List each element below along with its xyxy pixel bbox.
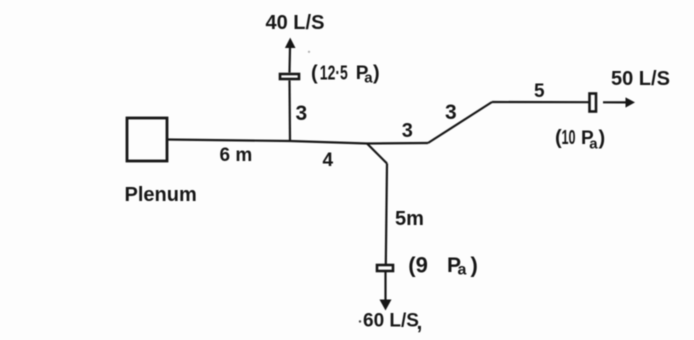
label (12.5 Pa) (311, 63, 380, 87)
wire top right horizontal run (492, 101, 589, 103)
svg-text:10: 10 (562, 127, 576, 149)
wire main duct from up-branch node to down-branch junction (290, 141, 367, 144)
wire main duct from junction to diagonal start (367, 142, 428, 145)
svg-text:a: a (458, 262, 467, 279)
wire arrow shaft 50 L/S outlet (603, 101, 626, 103)
damper up branch (orifice) (280, 74, 299, 79)
wire down branch diagonal stub (367, 144, 387, 164)
wire down branch below damper (384, 272, 386, 301)
svg-text:,: , (417, 311, 423, 334)
svg-text:(: ( (311, 63, 318, 85)
svg-text:Plenum: Plenum (125, 184, 197, 206)
svg-text:): ) (471, 252, 478, 277)
svg-text:3: 3 (296, 102, 308, 125)
damper right (orifice) (590, 94, 597, 112)
svg-text:50 L/S: 50 L/S (611, 68, 670, 90)
svg-text:60 L/S: 60 L/S (363, 311, 419, 332)
svg-text:4: 4 (323, 150, 334, 171)
plenum box (127, 118, 167, 161)
wire up branch above damper (288, 48, 291, 73)
damper down branch (orifice) (377, 265, 393, 271)
arrowhead right outlet (626, 97, 636, 107)
wire main duct from plenum to up-branch node (167, 140, 290, 142)
svg-text:3: 3 (402, 120, 413, 142)
label 60 L/S (359, 311, 423, 335)
svg-text:5m: 5m (395, 208, 424, 230)
wire diagonal riser to upper right (428, 102, 492, 143)
svg-text:): ) (373, 63, 380, 85)
svg-text:3: 3 (445, 101, 457, 124)
svg-text:a: a (589, 136, 598, 153)
arrowhead up outlet (285, 38, 296, 48)
scan speck (308, 51, 310, 53)
svg-text:a: a (364, 70, 373, 87)
svg-text:6 m: 6 m (220, 145, 253, 166)
arrowhead down outlet (380, 300, 392, 311)
wire up branch below damper (288, 81, 291, 142)
svg-text:5: 5 (534, 81, 545, 102)
label (9 Pa) (408, 252, 478, 278)
label (10 Pa) (555, 127, 605, 153)
svg-text:12·5: 12·5 (320, 63, 348, 85)
svg-text:40 L/S: 40 L/S (266, 12, 325, 34)
wire down branch vertical run 5m (386, 164, 387, 265)
svg-text:): ) (599, 128, 606, 150)
svg-text:(9: (9 (408, 252, 428, 277)
